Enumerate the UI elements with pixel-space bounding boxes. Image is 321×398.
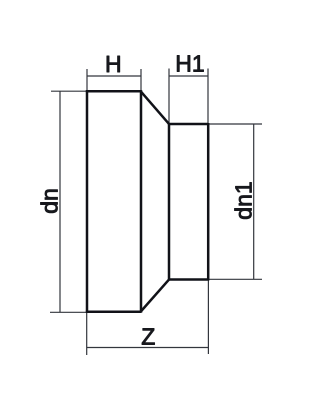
svg-text:dn: dn — [37, 188, 63, 214]
svg-text:H1: H1 — [175, 51, 204, 77]
svg-text:dn1: dn1 — [231, 181, 257, 219]
svg-text:H: H — [105, 51, 122, 77]
svg-text:Z: Z — [141, 324, 155, 350]
